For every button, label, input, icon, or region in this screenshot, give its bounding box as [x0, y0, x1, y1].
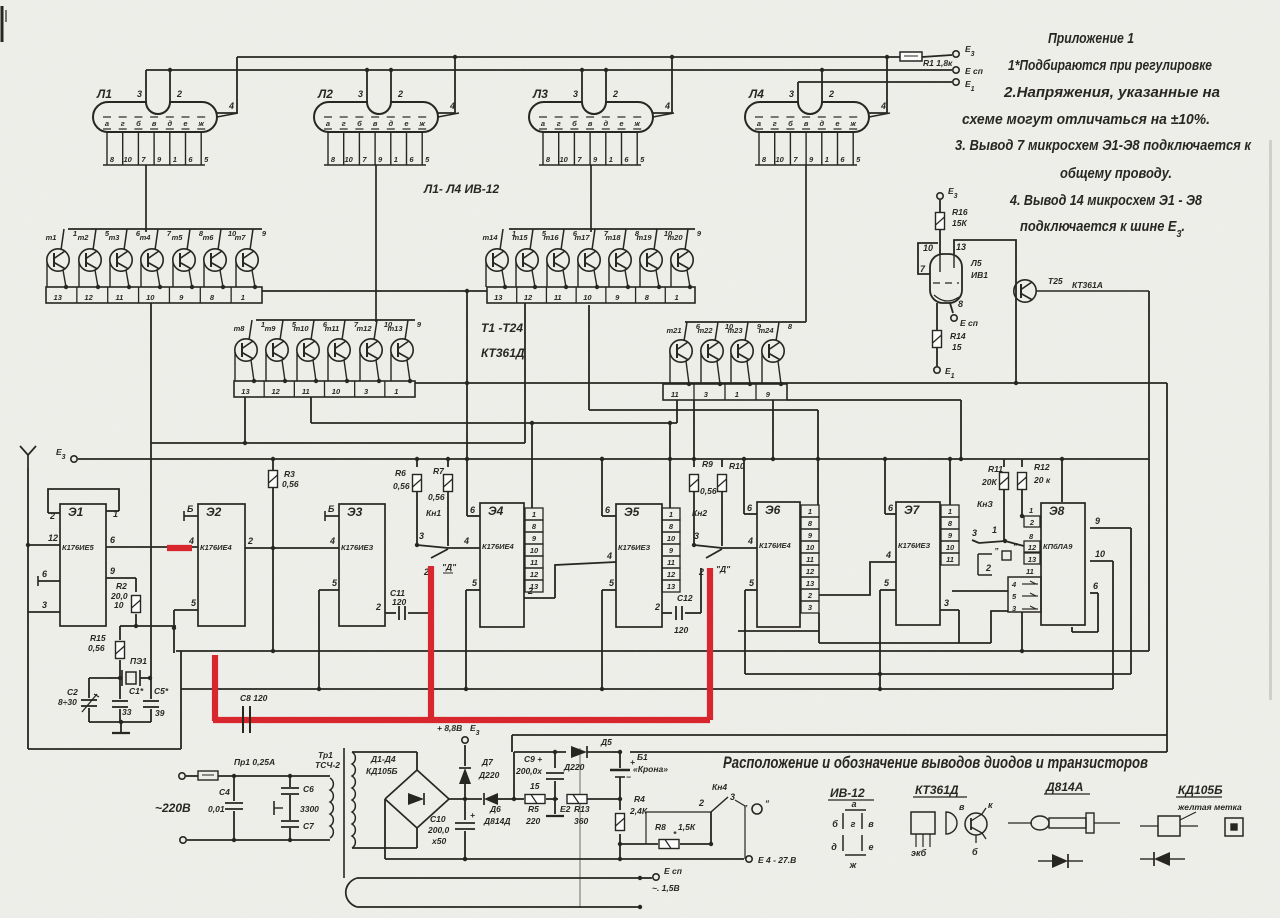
pin ladder of E5 — [662, 508, 680, 592]
wire bus x1062 down to E8 — [1060, 457, 1064, 502]
wire block D col x773 down — [772, 400, 774, 459]
wire caps bottom y722 and ground — [89, 720, 151, 733]
Kn3 pin 2 open contact — [978, 541, 1018, 575]
terminal E1 at R14 — [934, 366, 955, 380]
capacitor C9 200x15 — [515, 750, 564, 816]
terminal Esp at L5 — [950, 303, 979, 328]
wire E8 column x1022 down — [1021, 612, 1023, 651]
legend KD105B diode package — [1140, 783, 1243, 836]
wire L4 column step to block D — [787, 321, 806, 323]
red wire segment E1-E2 pin4 — [167, 545, 192, 551]
diode D7 D220 — [459, 745, 500, 799]
wire tube L2 pin4 to bus — [438, 55, 457, 113]
transistor т7 KT361 — [236, 249, 258, 289]
note heading Prilozhenie 1 — [1048, 31, 1134, 47]
pin 9 of E1 — [106, 566, 136, 578]
pin 6 wire of E5 — [600, 457, 616, 516]
note line 3 — [962, 112, 1210, 128]
tube L5 IV-1 indicator — [920, 242, 988, 309]
button Kn3 — [972, 499, 1024, 546]
wire tube L2 pin2 to bus — [389, 68, 393, 102]
transistor т19 KT361 — [640, 249, 662, 289]
diode D5 D220 — [514, 737, 612, 772]
transistor т23 KT361 — [731, 340, 753, 386]
legend D814A diode symbol — [1038, 854, 1083, 868]
transformer secondary upper — [352, 752, 383, 848]
IC E1 K176IE5 — [60, 504, 106, 626]
terminal E3 +8,8V — [437, 723, 480, 743]
transformer secondary lower winding bottom wire — [357, 905, 642, 909]
terminal Esp top — [953, 66, 984, 76]
wire bus y651 — [176, 649, 1149, 653]
wire E5 ladder top column x670 — [668, 423, 672, 508]
resistor R3 0,56 — [269, 459, 299, 651]
transistor т6 KT361 — [204, 249, 226, 289]
transistor т4 KT361 — [141, 249, 163, 289]
pin 6 wire of E7 — [883, 457, 896, 514]
wire E1 reset bracket pins 2-1 — [48, 489, 119, 521]
transistor т11 KT361 — [328, 339, 350, 383]
resistor R5 220 — [514, 781, 558, 826]
transistor block B (T8-T13) pin numbers top — [261, 320, 422, 329]
transistor block A (T1-T7) labels — [46, 233, 247, 242]
wire bus y689 — [181, 688, 1113, 690]
button Kn2 — [692, 508, 731, 577]
button Kn1 — [415, 508, 457, 577]
terminal E3 top — [953, 44, 975, 58]
transistor т8 KT361 — [235, 339, 257, 383]
wire tube L1 pin3 drop — [145, 70, 147, 102]
wire R2 to E2 pin5 column — [136, 625, 176, 627]
wire y410 to E6 ladder column x818 — [816, 410, 820, 505]
red wire vertical left x215 — [212, 655, 218, 721]
transistor т5 KT361 — [173, 249, 195, 289]
pin 6 of E8 wire loop — [1072, 581, 1099, 632]
transistor т22 KT361 — [701, 340, 723, 386]
IC E8 K176LA9 — [1041, 503, 1085, 625]
wire bus E3 y459 — [78, 457, 1149, 461]
terminal Esp bottom — [640, 866, 683, 893]
terminal AC input bottom — [180, 837, 234, 843]
pin 5 of E7 wire down — [878, 578, 896, 691]
wire rail y859 and terminal E4 -27V — [449, 844, 796, 865]
resistor R12 20K — [1018, 459, 1051, 518]
capacitor C8 120 on red bus — [240, 693, 268, 733]
wire antenna column x28 — [26, 468, 30, 612]
diode D6 D814D — [483, 793, 516, 826]
terminal E1 top — [953, 79, 975, 93]
tube Л3 IV-12 — [529, 87, 674, 232]
note line 2 — [1003, 85, 1220, 101]
pin 12 of E1 — [28, 533, 60, 545]
wire battery line to right edge y752 — [618, 750, 1167, 754]
wire y631 segment — [738, 630, 819, 632]
resistor R11 20K — [981, 459, 1009, 541]
pin ladder of E6 — [801, 505, 819, 613]
wire T25 right column down (x1149) — [1148, 291, 1150, 651]
pin 4 of E3 — [329, 536, 335, 546]
terminal AC input top — [179, 773, 198, 779]
pin 6 of E1 output — [106, 535, 198, 547]
wire bus y674 — [745, 673, 1131, 675]
red wire vertical x431 Kn1 — [428, 566, 434, 720]
wire L5 pin7 bracket — [918, 243, 938, 274]
scan edge artifact top-left — [2, 6, 6, 42]
label KT361D type — [481, 346, 525, 360]
resistor E2 R13 360 — [560, 795, 620, 827]
resistor R2 20,0 — [110, 578, 141, 628]
transistor block B (T8-T13) bottom pin box — [234, 381, 415, 397]
resistor R14 15 — [933, 303, 966, 366]
wire E4 ladder top column x532 — [531, 423, 533, 508]
legend D814A diode package — [1008, 780, 1120, 833]
button Kn4 — [646, 782, 770, 859]
pin ladder of E7 — [941, 505, 959, 565]
pin 3 wire of E1 and oscillator box left — [28, 600, 60, 749]
antenna symbol — [20, 446, 36, 468]
pin 2 of E5 and capacitor C12 120 — [654, 568, 701, 635]
wire block B col x245 down — [243, 397, 247, 445]
pin 4 label of E5 — [606, 551, 612, 561]
resistor R9 0,56 — [690, 459, 717, 545]
transformer Tr1 TSCh-2 primary — [234, 750, 340, 840]
wire tube L4 pin3 to bus E1 — [797, 82, 799, 102]
legend IV-12 seven segment — [828, 786, 874, 870]
wire block C col x589 down to y410 — [588, 305, 590, 410]
wire top bus E3 (y57) — [237, 56, 900, 58]
pin 5 of E3 wire down — [317, 578, 339, 691]
pin 4 of E2 — [188, 536, 194, 546]
IC E7 K176IE3 — [896, 502, 940, 625]
winding left curl — [346, 878, 357, 907]
pin 3 of E7 wire down — [940, 598, 959, 643]
transistor т3 KT361 — [110, 249, 132, 289]
transistor т1 KT361 — [47, 249, 69, 289]
wire tube L2 pin3 drop — [365, 68, 369, 102]
note line 4 — [955, 138, 1252, 154]
wire bottom rail y844 — [620, 842, 713, 846]
scan crease line — [579, 748, 581, 908]
E8 left pin cells — [1024, 506, 1040, 576]
resistor R15 0,56 — [88, 626, 136, 680]
wire Kn1 to E4 pin4 — [448, 536, 480, 548]
transistor т20 KT361 — [671, 249, 693, 289]
wire tube L3 pin4 to bus — [653, 55, 674, 113]
pin 9 of E8 wire — [1090, 516, 1131, 674]
oscillator box bottom — [28, 748, 181, 750]
transistor block C (T14-T20) bottom pin box — [487, 287, 695, 303]
resistor R16 15K — [936, 200, 968, 254]
wire bus y423 — [311, 421, 677, 425]
pin 5 of E5 wire down — [600, 578, 616, 691]
capacitor C6 3300 C7 — [274, 774, 319, 842]
pin ladder of E4 — [525, 508, 543, 592]
oscillator box right edge — [180, 651, 182, 749]
battery B1 Krona — [610, 752, 668, 801]
resistor R7 0,56 — [428, 459, 453, 546]
wire bridge left corner down — [385, 799, 449, 859]
capacitor C5* 39 — [143, 678, 169, 722]
capacitor C1* 33 — [112, 678, 144, 722]
wire tube L1 pin4 to bus — [217, 57, 237, 113]
pin 6 wire of E4 — [465, 289, 480, 516]
IC E2 K176IE4 — [198, 504, 245, 626]
wire bus y410 — [589, 409, 818, 411]
crystal PE1 — [108, 656, 152, 686]
wire Kn2 to E6 pin4 — [722, 536, 757, 548]
wire block B col to bus (x310) — [310, 397, 312, 423]
pin 5 of E2 wire down — [172, 598, 198, 653]
note line 7 — [1020, 219, 1185, 240]
note line 1 — [1008, 58, 1212, 74]
wire busE column down to crystal (x151) — [150, 443, 152, 678]
wire bus y443 — [151, 442, 525, 444]
wire block B to right edge (y381) — [415, 382, 1167, 384]
bridge rectifier D1-D4 KD105B — [366, 752, 449, 848]
transistor т17 KT361 — [578, 249, 600, 289]
legend KD105B diode symbol — [1140, 852, 1185, 866]
wire to E8 gate pin 5 — [952, 590, 1008, 592]
transistor T25 KT361A — [1014, 276, 1149, 302]
pin 4 of E7 wire from E6 ladder — [819, 550, 896, 595]
wire tube L1 pin2 to bus — [168, 68, 172, 102]
resistor R10 — [718, 459, 745, 546]
transistor block A (T1-T7) bottom pin box — [46, 287, 262, 303]
input bar pin 6 of E1 — [38, 569, 60, 586]
label 220V — [155, 801, 191, 815]
wire block D col x694 down — [693, 400, 695, 459]
fuse Pr1 0,25A — [198, 757, 290, 780]
wire crystal row to C2 — [89, 677, 108, 679]
wire E7 ladder top column x950 — [948, 457, 952, 505]
wire tube L3 pin2 to bus — [604, 68, 608, 102]
wire block D box to bus y423 (x677) — [676, 400, 678, 423]
transistor т12 KT361 — [360, 339, 382, 383]
terminal E3 at R16 — [937, 186, 958, 200]
IC E4 K176IE4 — [480, 503, 524, 627]
IC E6 K176IE4 — [757, 502, 800, 627]
transistor block A (T1-T7) pin numbers top — [73, 229, 267, 238]
red wire vertical x710 Kn2 — [707, 568, 713, 720]
wire right edge vertical x1167 — [1166, 383, 1168, 752]
E8 gate box pins 4-5-3 — [1008, 577, 1041, 613]
pin 2 of E2 wire to E3 — [245, 536, 339, 550]
IC E5 K176IE3 — [616, 504, 662, 627]
transistor block C (T14-T20) pin numbers top — [512, 229, 702, 238]
IC E3 K176IE3 — [339, 504, 385, 626]
resistor R1 1,8k — [900, 52, 953, 68]
transistor block B (T8-T13) top rail — [249, 320, 415, 340]
wire tube L3 pin3 drop — [580, 68, 584, 102]
wire block A col down to bus (x151) — [150, 303, 152, 443]
label T1-T24 — [481, 321, 523, 335]
pin 5 of E4 wire down — [464, 578, 480, 691]
transformer secondary lower winding top wire — [357, 876, 642, 880]
transistor т14 KT361 — [486, 249, 508, 289]
wire bus y643 segment — [819, 611, 1008, 643]
transistor т10 KT361 — [297, 339, 319, 383]
capacitor C4 0,01 — [208, 774, 243, 842]
capacitor C10 200x50 — [427, 799, 475, 861]
transistor т18 KT361 — [609, 249, 631, 289]
transistor т21 KT361 — [670, 340, 692, 386]
wire bridge right output — [449, 797, 482, 801]
wire L5 pin13 to T25 column — [954, 240, 1018, 385]
transistor т16 KT361 — [547, 249, 569, 289]
transistor block A (T1-T7) top rail — [61, 229, 262, 250]
red wire horizontal y720 — [213, 717, 710, 723]
transistor т2 KT361 — [79, 249, 101, 289]
resistor R8* 1,5K — [655, 822, 696, 849]
resistor R4 2,4K — [616, 794, 648, 846]
legend heading — [723, 754, 1148, 772]
wire block C col T15 down to bus (x525) — [524, 303, 526, 443]
pin 10 of E8 wire — [1090, 549, 1113, 689]
pin 6 wire of E6 — [742, 457, 757, 514]
wire bus y735 right — [512, 735, 1167, 752]
wire block A to block C (y291) — [262, 290, 487, 292]
capacitor C2 8-30 trimmer — [58, 678, 99, 722]
transistor т15 KT361 — [516, 249, 538, 289]
input bar pin 6 of E2 — [184, 504, 198, 521]
wire top bus E1 (y81) — [798, 81, 952, 83]
transistor block B (T8-T13) labels — [234, 324, 404, 333]
label L1-L4 IV-12 — [423, 182, 499, 196]
wire stabilizer row — [513, 752, 515, 799]
tube Л4 IV-12 — [745, 87, 890, 322]
terminal E3 left — [56, 447, 77, 462]
wire block D box right to busG (x961) — [787, 400, 963, 461]
transistor block C (T14-T20) labels — [482, 233, 683, 242]
transistor block D (T21-T24) bottom pin box — [663, 384, 787, 400]
tube Л1 IV-12 — [93, 87, 238, 232]
wire tube L4 pin2 to bus — [820, 68, 824, 102]
pin 5 of E6 wire down — [745, 578, 757, 674]
transistor block C (T14-T20) top rail — [500, 229, 695, 250]
transistor т24 KT361 — [762, 340, 784, 386]
pin 2 stub of E4 wire to E5 pin4 — [524, 562, 616, 598]
transistor т13 KT361 — [391, 339, 413, 383]
transistor т9 KT361 — [266, 339, 288, 383]
input bar pin 6 of E3 — [325, 504, 339, 521]
note line 5 — [1060, 166, 1172, 182]
wire top bus Esp (y70) — [146, 69, 952, 71]
legend KT361D transistor — [911, 783, 993, 858]
transistor block D (T21-T24) labels — [666, 326, 774, 335]
wire E6 ladder pin3 down — [818, 613, 820, 643]
tube Л2 IV-12 — [314, 87, 459, 322]
transistor block D (T21-T24) pin numbers top — [696, 322, 793, 331]
resistor R6 0,56 — [393, 459, 422, 545]
transformer core — [343, 748, 345, 878]
note line 6 — [1009, 193, 1203, 209]
wire tube L4 pin4 to bus — [869, 55, 889, 113]
pin 2 of E3 and capacitor C11 120 — [375, 588, 431, 620]
transistor block D (T21-T24) top rail — [684, 322, 787, 341]
